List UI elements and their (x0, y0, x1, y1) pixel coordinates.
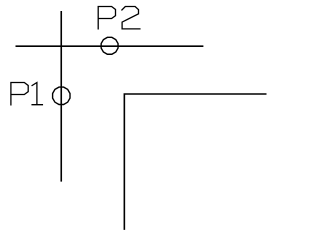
label P2 (98, 7, 140, 29)
wire corner polyline (124, 94, 266, 230)
node P2 pick-point circle (101, 37, 118, 54)
wire vertical line through cross (60, 11, 62, 182)
node P1 pick-point circle (53, 87, 70, 104)
wire horizontal line through cross (16, 45, 204, 47)
label P1 (11, 83, 43, 105)
